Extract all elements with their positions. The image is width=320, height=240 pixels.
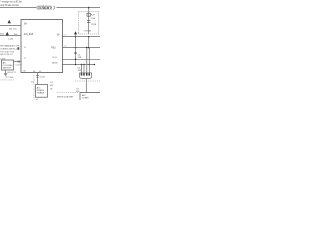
svg-text:C3987: C3987 [38,8,54,10]
svg-text:C134: C134 [40,76,46,78]
wire pin c drop [86,48,88,74]
wire pin d drop [88,48,90,74]
svg-text:228: 228 [78,57,82,59]
wire PCM pin25 down [37,73,39,85]
svg-text:SEE EVTM 54-1: SEE EVTM 54-1 [0,54,14,56]
svg-text:CONTROL SEE 34-2: CONTROL SEE 34-2 [0,48,17,50]
svg-text:36: 36 [57,34,60,36]
wire V1 vertical [75,37,77,65]
svg-text:MON: MON [52,63,58,65]
svg-text:12: 12 [24,47,27,49]
svg-text:and climate circuits: and climate circuits [0,4,19,7]
connector pin 4 [89,73,91,75]
wire pin b drop [83,65,85,74]
node W2 fuse drop [88,47,90,49]
connector pin 2 [83,73,85,75]
wire top bus right segment [57,7,101,9]
svg-text:36: 36 [77,33,80,35]
wire top bus left segment [0,7,37,9]
dashed boundary bottom center [57,92,79,94]
battery junction box dashed enclosure [79,12,99,35]
stray mark [50,88,52,89]
svg-text:F27: F27 [91,15,96,17]
wire W1 clutch feed [63,36,101,38]
wire feed L2 [0,35,21,37]
svg-text:F63: F63 [51,47,56,49]
node W3 x75.5 [75,59,77,61]
wire clutch coil lead [85,78,87,92]
svg-text:VEH W/ DUAL FAN: VEH W/ DUAL FAN [57,95,73,98]
wire pin a drop [81,65,83,74]
power triangle S1 [8,20,11,24]
svg-text:COMP: COMP [82,98,89,100]
node W1 fuse drop [88,36,90,38]
wire W3 [63,58,101,60]
wire fuse drop into junction box [88,8,90,34]
svg-text:A/C_2A8: A/C_2A8 [24,33,34,36]
svg-text:CLU: CLU [52,57,57,59]
connector C2 bars [87,21,90,23]
dashed option wire [33,75,35,100]
power triangle S3 [74,31,77,34]
svg-text:437: 437 [50,85,54,87]
node W2 x75.5 [75,47,77,49]
node fuse tap junction [88,7,90,9]
A/C compressor box [80,93,100,101]
note block symbol [17,47,19,49]
node W1 x75.5 [75,36,77,38]
svg-text:G101 57: G101 57 [7,72,16,74]
inline connector ticks on V1 [74,52,76,53]
svg-text:C123: C123 [15,64,21,66]
svg-text:B14: B14 [0,33,5,35]
connector pin 1 [81,73,83,75]
node W4 end [89,64,90,65]
svg-text:C228: C228 [91,24,97,26]
compressor clutch connector shell [80,73,92,79]
svg-text:B+: B+ [24,24,28,26]
node W4 pin a [81,64,82,65]
inline connector ticks C134 [36,76,38,77]
node pin c tap [86,47,87,48]
svg-text:C4: C4 [50,82,54,84]
svg-text:15A: 15A [91,17,95,20]
power triangle S2 [6,32,9,36]
svg-text:57 BK: 57 BK [6,77,15,79]
A/C pressure transducer box [36,85,48,98]
svg-text:41: 41 [36,99,39,100]
wire W4 [63,64,96,66]
connector shell arc [53,6,55,9]
dashed boundary right [75,80,100,82]
svg-text:57 BK G101 4: 57 BK G101 4 [0,80,15,82]
ground G101 [4,74,7,76]
svg-text:27: 27 [24,58,27,60]
wire fuse drop lower [88,37,90,48]
fuse F27 body [87,13,90,16]
node W4 x75.5 [75,64,77,66]
stub S3 [75,34,77,36]
svg-text:1 FUSE: 1 FUSE [83,30,91,32]
node W4 terminal [94,64,96,66]
svg-text:* message sent to EC fan: * message sent to EC fan [0,1,22,4]
svg-text:30 LG: 30 LG [9,28,17,30]
svg-text:SWITCH: SWITCH [3,67,12,69]
wire switch ground lead [5,70,7,73]
svg-text:348: 348 [64,45,68,47]
svg-text:C141: C141 [8,38,14,40]
svg-text:951: 951 [31,81,35,83]
svg-text:WITH MANUAL A/C CTRL: WITH MANUAL A/C CTRL [0,44,20,47]
PCM module box U1 [21,20,63,73]
inline connector ticks C123 [18,60,19,62]
wire W2 [63,47,101,49]
svg-text:347: 347 [64,34,68,36]
wire switch to PCM [14,61,22,63]
svg-text:12 35 8 C0: 12 35 8 C0 [38,5,53,7]
node W4 pin b [83,64,84,65]
svg-text:FOR DUAL ZONE: FOR DUAL ZONE [0,50,15,53]
svg-text:TRANS: TRANS [37,91,45,94]
connector pin 3 [86,73,88,75]
A/C cycling switch box [2,60,14,70]
connector C1035 inline boxes [37,7,52,10]
wire feed L1 [0,25,21,27]
